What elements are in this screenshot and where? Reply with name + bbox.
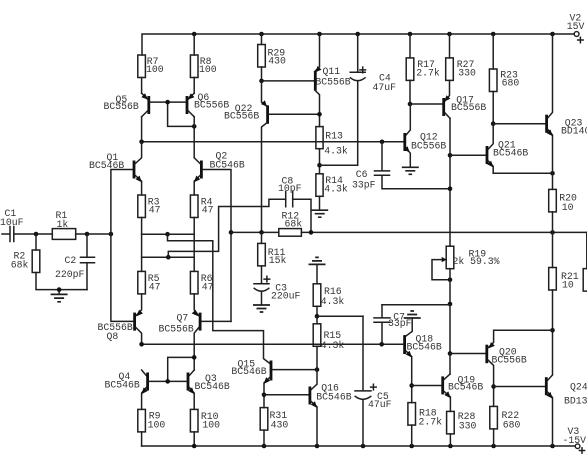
wire bottom mirror diode connection	[168, 357, 195, 381]
wire R1 to input node	[76, 233, 111, 235]
wire R14 to ground	[319, 196, 321, 210]
wire R28 to V- rail	[449, 434, 451, 446]
resistor R27	[449, 34, 451, 58]
resistor R2	[35, 234, 37, 250]
wire Q22 base to Q11 collector	[269, 113, 320, 115]
power terminal V3 -15V	[575, 444, 580, 449]
resistor R18	[408, 403, 416, 426]
capacitor C8 10pF	[286, 192, 293, 207]
svg-text:68k: 68k	[11, 259, 29, 270]
svg-text:BC546B: BC546B	[407, 341, 442, 352]
resistor R16	[313, 284, 321, 307]
transistor Q12 BC556B	[406, 104, 410, 135]
svg-text:Q24: Q24	[570, 382, 587, 393]
svg-text:4.3k: 4.3k	[321, 340, 345, 351]
svg-text:100: 100	[146, 64, 164, 75]
wire R10 to V- rail	[193, 432, 195, 446]
svg-text:4.3k: 4.3k	[324, 183, 348, 194]
svg-text:47: 47	[149, 205, 161, 216]
resistor R5	[138, 271, 146, 294]
svg-text:BC546B: BC546B	[493, 147, 528, 158]
transistor Q11 BC556B	[315, 34, 320, 72]
wire Q11 base	[262, 80, 314, 82]
svg-text:BD139: BD139	[564, 396, 587, 407]
svg-text:330: 330	[458, 67, 476, 78]
svg-text:10pF: 10pF	[278, 183, 302, 194]
svg-text:BC546B: BC546B	[316, 392, 351, 403]
wire C1 to R1	[14, 233, 53, 235]
svg-text:BC556B: BC556B	[194, 99, 229, 110]
transistor Q21 BC546B	[450, 154, 486, 156]
svg-text:430: 430	[268, 55, 286, 66]
transistor Q6 BC556B	[193, 78, 195, 94]
capacitor C2	[86, 234, 88, 257]
wire R4 to R6 column	[193, 218, 195, 272]
wire R12 right to output rail	[301, 231, 587, 233]
svg-text:100: 100	[202, 420, 220, 431]
resistor R7	[138, 55, 146, 78]
resistor R9	[138, 409, 146, 432]
resistor R20	[552, 173, 554, 189]
wire C6 to Q17 collector column	[382, 175, 450, 188]
transistor Q7 BC556B	[194, 294, 199, 316]
wire Q17 base	[410, 103, 442, 105]
transistor Q24 BD139	[545, 377, 548, 395]
resistor R28	[447, 411, 455, 434]
svg-text:4.3k: 4.3k	[324, 145, 348, 156]
svg-text:47uF: 47uF	[373, 82, 397, 93]
transistor Q18 BC546B	[406, 318, 412, 336]
resistor at right edge (cut off)	[583, 269, 587, 292]
transistor Q1 BC546B	[133, 161, 136, 179]
svg-text:Q8: Q8	[107, 331, 119, 342]
svg-text:68k: 68k	[285, 218, 303, 229]
svg-text:BC546B: BC546B	[448, 382, 483, 393]
resistor R13	[316, 127, 323, 149]
svg-text:BC556B: BC556B	[411, 140, 446, 151]
transistor Q2 BC546B	[200, 161, 203, 179]
wire Q6 collector to Q2 collector	[193, 117, 195, 158]
wire R22 to V- rail	[493, 429, 495, 446]
resistor R12	[279, 229, 302, 237]
wire PNP tail rail	[142, 256, 195, 258]
wire R18 to V- rail	[411, 425, 413, 446]
resistor R6	[190, 271, 198, 294]
transistor Q23 BD140	[545, 115, 548, 133]
wire V+ top rail	[142, 34, 574, 55]
wire mirror diode connection	[168, 102, 195, 126]
wire to Q23 base	[493, 123, 545, 125]
svg-text:47: 47	[202, 205, 214, 216]
svg-text:BC546B: BC546B	[231, 366, 266, 377]
ground below C3	[253, 305, 270, 312]
svg-text:15k: 15k	[269, 255, 287, 266]
wire Q7 base stub	[202, 320, 232, 322]
wire Q2 base to feedback node to Q7 base	[203, 170, 231, 322]
svg-text:-15V: -15V	[563, 435, 587, 446]
wire VAS drive node	[142, 141, 404, 143]
wire Q17 collector column	[449, 118, 451, 246]
ground above Q18 collector (flipped)	[404, 311, 421, 318]
transistor Q15 BC546B	[270, 361, 273, 381]
svg-text:BC546B: BC546B	[89, 160, 124, 171]
wire R2/C2 bottom rail	[36, 273, 87, 290]
capacitor C1	[10, 227, 14, 242]
svg-text:680: 680	[502, 77, 520, 88]
transistor Q19 BC546B	[441, 376, 444, 394]
svg-text:BC556B: BC556B	[451, 102, 486, 113]
wire R21 to Q24 collector	[552, 290, 554, 374]
wire Q5 collector	[141, 117, 143, 142]
wire input left	[2, 233, 10, 235]
wire Q8C/Q4C to Q18 base	[142, 343, 404, 345]
svg-text:680: 680	[503, 420, 521, 431]
wire C5 to V- rail	[362, 400, 364, 446]
resistor R11	[261, 232, 263, 243]
svg-text:2.7k: 2.7k	[416, 67, 440, 78]
wire R16/R15 node to C5	[317, 315, 363, 317]
svg-text:47uF: 47uF	[368, 399, 392, 410]
svg-text:100: 100	[148, 419, 166, 430]
wire NPN tail to Q15 collector	[168, 234, 270, 363]
wire R17 to Q17 base	[409, 80, 411, 104]
resistor R29	[261, 34, 263, 45]
wire V- bottom rail	[142, 445, 576, 447]
wire Q5-Q6 base rail	[150, 101, 185, 103]
wire R3 to R5 column	[141, 218, 143, 272]
wire PNP tail to C8	[168, 199, 285, 257]
svg-text:100: 100	[199, 64, 217, 75]
label + of V2	[578, 37, 583, 42]
resistor R8	[190, 55, 198, 78]
svg-text:BC546B: BC546B	[105, 380, 140, 391]
ground above R16 (flipped)	[309, 257, 326, 264]
transistor Q22 BC556B	[262, 81, 267, 106]
capacitor C5 47uF	[362, 316, 364, 390]
transistor Q17 BC556B	[445, 80, 449, 100]
wire C3 to ground	[261, 291, 263, 305]
capacitor C7 33pF	[382, 304, 450, 306]
transistor Q16 BC546B	[309, 387, 312, 405]
wire Q18 emitter to Q19 base	[412, 385, 442, 387]
resistor R22	[490, 406, 498, 429]
svg-text:10uF: 10uF	[0, 217, 24, 228]
svg-text:BC556B: BC556B	[224, 110, 259, 121]
svg-text:47: 47	[149, 281, 161, 292]
svg-text:BC556B: BC556B	[315, 77, 350, 88]
svg-text:Q11: Q11	[323, 66, 341, 77]
node VAS feedback wire	[231, 231, 279, 233]
svg-text:BC556B: BC556B	[492, 355, 527, 366]
wire R29 to Q22 emitter	[261, 67, 263, 81]
wire input node to Q1/Q8 bases	[111, 170, 133, 322]
resistor R21	[549, 268, 557, 291]
resistor R15	[313, 324, 321, 347]
wire NPN tail rail	[142, 233, 195, 235]
label + of V3	[579, 448, 584, 453]
wire Q15 emitter to Q16 base	[264, 394, 309, 396]
transistor Q5 BC556B	[141, 78, 143, 94]
wire R13 to R14	[319, 149, 321, 174]
svg-text:2.7k: 2.7k	[419, 416, 443, 427]
wire R20 to R21	[552, 212, 554, 268]
svg-text:47: 47	[202, 281, 214, 292]
capacitor C6 33pF	[381, 142, 383, 170]
wire R31 to V- rail	[263, 430, 265, 446]
transistor Q3 BC546B	[189, 370, 194, 376]
svg-text:15V: 15V	[567, 21, 585, 32]
ground below Q12	[402, 167, 419, 174]
wire C8 right to R12 right	[293, 199, 311, 232]
svg-text:Q7: Q7	[177, 312, 189, 323]
wire Q20 collector to Q24 base	[494, 386, 545, 388]
svg-text:220pF: 220pF	[55, 269, 85, 280]
wire R19 bottom to Q19 collector	[449, 269, 451, 375]
transistor Q8 BC556B	[136, 294, 142, 316]
wire R23 to Q21 collector node	[492, 92, 494, 124]
resistor R31	[260, 408, 268, 431]
svg-text:BC546B: BC546B	[195, 381, 230, 392]
svg-text:220uF: 220uF	[271, 291, 301, 302]
svg-text:BC556B: BC556B	[104, 101, 139, 112]
resistor R14	[316, 174, 323, 197]
svg-text:10: 10	[562, 280, 574, 291]
wire R9 to V- rail	[141, 432, 143, 446]
resistor R3	[138, 195, 146, 218]
svg-text:10: 10	[562, 202, 574, 213]
power terminal V2 15V	[574, 32, 579, 37]
wire R16 to R15	[316, 306, 318, 324]
svg-text:4.3k: 4.3k	[321, 296, 345, 307]
capacitor C4 47uF	[357, 34, 359, 71]
svg-text:2k 59.3%: 2k 59.3%	[453, 256, 500, 267]
resistor R1	[52, 229, 75, 240]
svg-text:BC546B: BC546B	[210, 159, 245, 170]
ground below R14	[311, 210, 328, 217]
resistor R23	[492, 34, 494, 69]
transistor Q20 BC556B	[450, 353, 485, 355]
wire Q4-Q3 base rail	[149, 380, 187, 382]
wire ground to R16	[316, 264, 318, 283]
svg-text:BD140: BD140	[561, 125, 587, 136]
wire C4 to R13/R14 junction	[320, 81, 358, 166]
svg-text:1k: 1k	[57, 219, 69, 230]
capacitor C3 220uF	[261, 266, 263, 283]
svg-text:BC556B: BC556B	[159, 323, 194, 334]
svg-text:C2: C2	[65, 255, 77, 266]
resistor R4	[190, 195, 198, 218]
svg-text:R13: R13	[325, 130, 343, 141]
potentiometer R19 2k	[446, 246, 454, 269]
transistor Q4 BC546B	[142, 370, 147, 376]
wire to input ground	[58, 290, 60, 295]
svg-text:33pF: 33pF	[388, 318, 412, 329]
svg-text:330: 330	[459, 420, 477, 431]
wire Q21 emitter to R20 top	[493, 172, 552, 174]
svg-text:33pF: 33pF	[352, 179, 376, 190]
svg-text:430: 430	[271, 419, 289, 430]
resistor R10	[190, 409, 198, 432]
resistor R17	[409, 34, 411, 58]
ground input	[51, 294, 68, 301]
